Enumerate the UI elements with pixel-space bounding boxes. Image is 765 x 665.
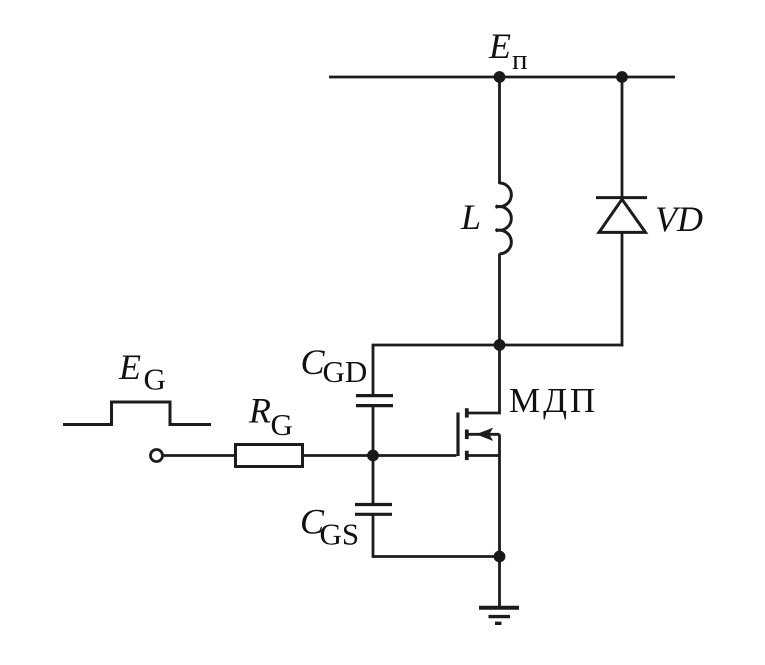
svg-text:R: R xyxy=(248,391,271,431)
capacitor C_GD xyxy=(356,396,393,406)
terminal input circle xyxy=(151,450,163,462)
source E_G pulse waveform xyxy=(63,402,211,425)
node mid (drain) xyxy=(494,339,506,351)
svg-text:G: G xyxy=(271,407,293,442)
source vertical xyxy=(498,434,501,556)
node junction top right xyxy=(616,71,628,83)
wire ground lead xyxy=(498,557,501,608)
node junction top left xyxy=(494,71,506,83)
gate electrode bar xyxy=(456,413,459,457)
wire C_GS top vertical xyxy=(372,456,375,506)
svg-text:G: G xyxy=(144,362,166,397)
wire C_GD top vertical xyxy=(372,345,375,396)
body lead with arrow xyxy=(467,433,500,436)
node gate xyxy=(367,450,379,462)
channel segment source xyxy=(465,451,469,460)
svg-text:E: E xyxy=(118,347,141,387)
svg-text:L: L xyxy=(460,197,481,237)
transistor МДП (n-channel MOSFET) xyxy=(458,345,500,557)
wire C_GS bottom vertical xyxy=(372,514,375,558)
svg-text:GD: GD xyxy=(323,354,368,389)
node source xyxy=(494,551,506,563)
wire inductor to mid node xyxy=(498,254,501,346)
svg-text:п: п xyxy=(512,44,528,76)
resistor R_G xyxy=(236,445,303,467)
source stub xyxy=(467,454,500,457)
wire mid horizontal node rail xyxy=(372,344,624,347)
wire gate horizontal xyxy=(303,454,456,457)
channel segment drain xyxy=(465,408,469,417)
wire diode branch top xyxy=(621,77,624,197)
capacitor C_GS xyxy=(355,505,392,515)
inductor L xyxy=(496,183,512,254)
drain stub xyxy=(467,345,500,413)
wire C_GD bottom vertical xyxy=(372,406,375,456)
wire top supply rail xyxy=(329,76,675,79)
svg-text:МДП: МДП xyxy=(509,381,598,420)
channel segment body xyxy=(465,430,469,440)
wire diode to mid rail xyxy=(621,232,624,346)
ground xyxy=(479,608,519,624)
wire input terminal to resistor xyxy=(162,454,236,457)
svg-text:E: E xyxy=(488,26,511,66)
wire bottom horizontal xyxy=(373,555,500,558)
diode VD xyxy=(596,198,647,233)
wire inductor branch top xyxy=(498,77,501,184)
svg-text:GS: GS xyxy=(320,517,360,552)
svg-text:VD: VD xyxy=(655,199,703,239)
